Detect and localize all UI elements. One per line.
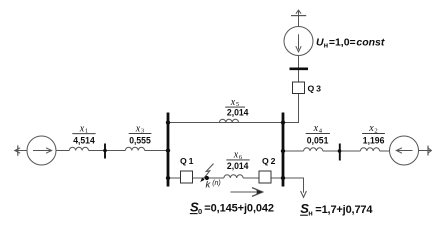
svg-text:н: н <box>308 209 313 218</box>
svg-text:=0,145+j0,042: =0,145+j0,042 <box>204 202 274 214</box>
svg-text:2,014: 2,014 <box>227 108 249 119</box>
svg-text:0,051: 0,051 <box>307 136 329 147</box>
svg-text:0: 0 <box>198 207 202 216</box>
svg-text:2,014: 2,014 <box>227 161 249 172</box>
svg-text:1,196: 1,196 <box>363 136 385 147</box>
svg-text:0,555: 0,555 <box>129 136 151 147</box>
svg-text:=1,7+j0,774: =1,7+j0,774 <box>315 204 373 216</box>
svg-text:4,514: 4,514 <box>73 136 95 147</box>
